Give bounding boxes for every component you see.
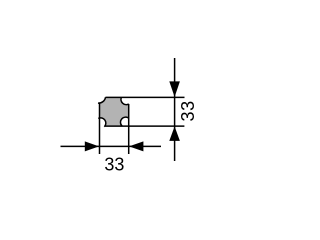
bottom edge line with extension to vertical dimension: [105, 125, 185, 127]
part body (33x33 square plate with four corner relief cuts, gray fill): [100, 97, 129, 126]
corner relief arc TL: [98, 97, 106, 103]
right edge line with extension to horizontal dimension: [128, 104, 130, 154]
svg-text:33: 33: [178, 100, 198, 121]
horizontal dimension line: [61, 145, 162, 147]
arrowhead pointing right at left edge: [85, 141, 99, 151]
arrowhead pointing left at right edge: [129, 141, 143, 151]
corner relief arc BL: [98, 118, 106, 127]
corner relief arc BR: [120, 117, 128, 126]
arrowhead pointing up at bottom edge: [169, 126, 180, 140]
corner relief arc TR: [121, 97, 129, 104]
vertical dimension line: [174, 58, 176, 161]
svg-text:33: 33: [104, 155, 124, 175]
top edge line with extension to vertical dimension: [105, 96, 184, 98]
left edge line with extension to horizontal dimension: [99, 103, 101, 154]
arrowhead pointing down at top edge: [169, 81, 180, 97]
